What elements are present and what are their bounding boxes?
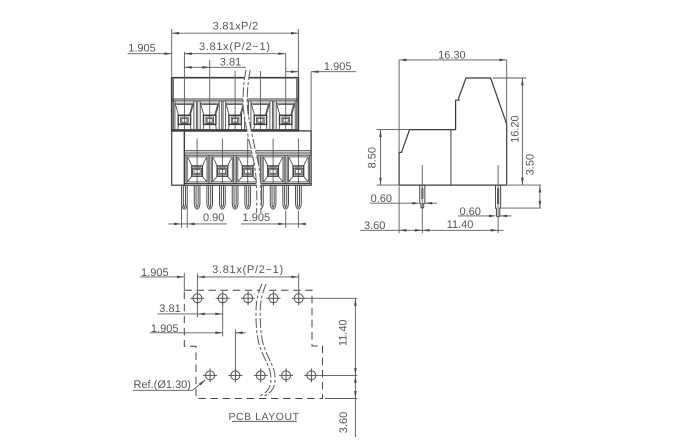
pin 4 <box>220 185 226 209</box>
hole B5 <box>304 368 318 382</box>
lower block outline <box>184 131 311 185</box>
hole A5 <box>292 291 306 305</box>
svg-text:1.905: 1.905 <box>151 323 179 335</box>
internal divider side view <box>450 130 452 186</box>
upper terminal 2 <box>200 101 219 130</box>
lower terminal 5 <box>287 155 309 183</box>
svg-text:0.90: 0.90 <box>203 212 224 224</box>
left pin centre line <box>421 165 423 233</box>
ext <box>506 60 508 124</box>
left end wall lower section <box>172 131 185 185</box>
upper terminal 4 <box>251 101 270 130</box>
hole A2 <box>216 291 230 305</box>
body outline upper block <box>172 78 299 131</box>
svg-text:16.30: 16.30 <box>438 49 466 61</box>
pin 9 <box>283 185 289 209</box>
cell divider strips lower row <box>210 155 286 183</box>
right pin side view <box>496 185 501 217</box>
lower terminal 1 <box>186 155 208 183</box>
hole A4 <box>266 291 280 305</box>
svg-text:1.905: 1.905 <box>324 61 352 73</box>
right pin centre line <box>497 165 499 233</box>
upper terminal 1 <box>175 101 194 130</box>
dimension 3.81x(P/2-1) <box>184 53 285 55</box>
lower terminal 3 <box>237 155 259 183</box>
dimension 1.905 right <box>286 72 356 131</box>
svg-text:3.60: 3.60 <box>364 220 385 232</box>
hole B1 <box>203 368 217 382</box>
break band pcb <box>256 284 275 396</box>
svg-text:0.60: 0.60 <box>459 206 480 218</box>
dimension 1.905 pcb top <box>140 273 198 294</box>
svg-text:3.81: 3.81 <box>220 56 241 68</box>
pin 1 <box>182 185 188 209</box>
left pin side view <box>420 185 425 208</box>
svg-text:3.60: 3.60 <box>338 412 350 433</box>
label Ref diameter 1.30 <box>133 380 205 390</box>
hole B4 <box>279 368 293 382</box>
dimension 3.81 <box>184 66 246 68</box>
top band screw slot centre lines <box>184 52 285 130</box>
hole A3 <box>241 291 255 305</box>
svg-text:3.81: 3.81 <box>159 303 180 315</box>
bottom dimension 0.90 and 1.905 <box>168 204 305 228</box>
svg-text:11.40: 11.40 <box>447 219 474 231</box>
pin 6 <box>245 185 251 209</box>
svg-text:1.905: 1.905 <box>141 267 169 279</box>
svg-text:16.20: 16.20 <box>509 115 521 143</box>
svg-text:3.81x(P/2−1): 3.81x(P/2−1) <box>199 41 271 53</box>
svg-text:Ref.(Ø1.30): Ref.(Ø1.30) <box>134 379 191 391</box>
pin 2 <box>194 185 200 209</box>
dimension 16.20 <box>493 78 527 185</box>
svg-text:11.40: 11.40 <box>338 319 350 346</box>
dimension 3.50 <box>501 185 541 208</box>
pin 10 <box>296 185 302 209</box>
dimension 3.81xP/2 <box>172 29 299 77</box>
svg-text:0.60: 0.60 <box>371 193 392 205</box>
hole A1 <box>190 291 204 305</box>
break line left (pcb) <box>256 284 271 396</box>
pin 5 <box>232 185 238 209</box>
dimension 3.60 <box>360 186 422 233</box>
break line right (front view) <box>247 70 261 213</box>
dimension 11.40 <box>422 229 503 231</box>
dimension 16.30 <box>399 60 507 152</box>
dimension 1.905 left <box>128 53 172 55</box>
break line left (front view) <box>243 70 257 213</box>
svg-text:1.905: 1.905 <box>243 212 271 224</box>
break line right (pcb) <box>260 284 275 396</box>
svg-text:3.81xP/2: 3.81xP/2 <box>213 20 259 32</box>
pin 7 <box>258 185 264 209</box>
break band front view <box>243 70 261 213</box>
pin 8 <box>270 185 276 209</box>
dimension 0.60 left pin <box>370 202 437 204</box>
side body profile <box>399 78 507 185</box>
dimension 1.905 pcb second <box>150 329 246 371</box>
dimension 3.60 pcb <box>325 398 357 400</box>
hole B3 <box>254 368 268 382</box>
pcb outline dashed <box>184 290 322 398</box>
hole B2 <box>228 368 242 382</box>
svg-text:3.81x(P/2−1): 3.81x(P/2−1) <box>212 264 284 276</box>
upper terminal 3 <box>226 101 245 130</box>
dimension 11.40 pcb <box>303 298 357 437</box>
svg-text:3.50: 3.50 <box>525 154 537 175</box>
svg-text:1.905: 1.905 <box>128 43 156 55</box>
svg-text:8.50: 8.50 <box>367 147 379 168</box>
lower terminal 2 <box>211 155 233 183</box>
dimension 3.81 pcb <box>157 303 222 336</box>
dimension 3.81x(P/2-1) pcb <box>197 274 298 294</box>
cell divider strips upper row <box>196 101 273 130</box>
dimension 0.60 right pin <box>458 215 512 217</box>
lower terminal 4 <box>262 155 284 183</box>
dimension 8.50 <box>377 130 410 186</box>
lower row centre lines <box>197 139 298 184</box>
pin 3 <box>207 185 213 209</box>
upper terminal 5 <box>276 101 295 130</box>
